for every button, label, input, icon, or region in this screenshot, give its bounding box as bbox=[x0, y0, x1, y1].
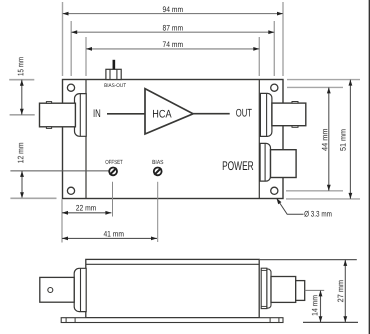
side view case bbox=[86, 259, 259, 317]
power connector body bbox=[271, 150, 297, 178]
svg-text:OUT: OUT bbox=[236, 107, 252, 119]
extension line IN connector centerline (15mm ref) bbox=[10, 114, 35, 116]
IN connector bottom tab bbox=[46, 127, 51, 129]
extension line box left edge (94mm) bbox=[62, 2, 64, 76]
screw hole top-right bbox=[271, 84, 278, 91]
svg-text:51 mm: 51 mm bbox=[339, 129, 348, 151]
OUT connector bottom tab bbox=[292, 126, 298, 128]
svg-text:74 mm: 74 mm bbox=[163, 40, 184, 49]
extension lines right side bbox=[287, 79, 360, 81]
dimension 51 mm bbox=[339, 80, 351, 199]
OUT connector nut bbox=[260, 93, 272, 136]
dimension 87 mm bbox=[71, 24, 274, 33]
screw hole top-left bbox=[67, 84, 74, 91]
svg-text:14 mm: 14 mm bbox=[310, 295, 319, 316]
svg-text:BIAS: BIAS bbox=[152, 159, 163, 166]
dimension 22 mm bbox=[62, 203, 111, 212]
extension line bottom-left (12mm ref) bbox=[10, 197, 56, 199]
svg-text:OFFSET: OFFSET bbox=[105, 159, 123, 166]
output wire bbox=[193, 113, 230, 115]
extension line left screw column (87mm) bbox=[70, 21, 72, 76]
potentiometer OFFSET bbox=[109, 168, 117, 176]
svg-text:12 mm: 12 mm bbox=[16, 142, 25, 163]
dimension 74 mm bbox=[86, 40, 259, 49]
svg-text:15 mm: 15 mm bbox=[16, 57, 25, 76]
dimension 14 mm bbox=[310, 290, 320, 322]
extension line left flange (74mm) bbox=[85, 37, 87, 76]
extension line top of box, left side (15mm ref) bbox=[9, 79, 34, 81]
svg-text:BIAS-OUT: BIAS-OUT bbox=[104, 83, 127, 89]
figure right border line bbox=[368, 0, 370, 334]
IN connector washer line bbox=[79, 94, 81, 137]
IN connector body bbox=[40, 103, 76, 127]
main case front view bbox=[63, 80, 284, 199]
extension line box right edge (94mm) bbox=[282, 2, 284, 76]
left flange line bbox=[85, 80, 87, 199]
svg-text:22 mm: 22 mm bbox=[76, 203, 97, 212]
screw hole bottom-right bbox=[271, 187, 278, 194]
IN connector nut bbox=[75, 94, 87, 137]
svg-text:POWER: POWER bbox=[222, 159, 254, 173]
BIAS-OUT connector body bbox=[106, 69, 121, 79]
side BNC washer line bbox=[80, 268, 82, 311]
dimension 94 mm bbox=[63, 5, 284, 14]
OUT connector washer line bbox=[266, 93, 268, 136]
extension line right flange (74mm) bbox=[258, 37, 260, 76]
side view lid seam bbox=[86, 263, 259, 265]
side BNC nut bbox=[74, 268, 86, 311]
side BNC bayonet stud bbox=[48, 288, 53, 293]
op-amp triangle HCA bbox=[145, 89, 193, 134]
extension verticals below box (22/41mm refs) bbox=[61, 199, 63, 242]
bottom reference line for 14/27mm dims bbox=[303, 321, 358, 323]
svg-text:44 mm: 44 mm bbox=[320, 128, 329, 151]
side BNC body bbox=[40, 277, 74, 302]
svg-text:27 mm: 27 mm bbox=[336, 280, 345, 303]
OUT connector top tab bbox=[292, 102, 298, 104]
svg-text:Ø 3.3 mm: Ø 3.3 mm bbox=[304, 209, 332, 218]
dimension 27 mm bbox=[336, 260, 345, 322]
svg-text:IN: IN bbox=[93, 108, 101, 120]
extension line power tip centerline (14mm) bbox=[305, 289, 325, 291]
leader line diameter 3.3 bbox=[277, 198, 333, 218]
dimension 12 mm bbox=[16, 142, 25, 198]
power connector nut bbox=[260, 143, 270, 181]
potentiometer BIAS bbox=[154, 168, 162, 176]
side power tip bbox=[296, 281, 305, 301]
pot centerline from left bbox=[10, 170, 109, 172]
screw hole bottom-left bbox=[67, 187, 74, 194]
input wire bbox=[107, 113, 145, 115]
OUT connector body bbox=[272, 103, 306, 126]
svg-text:41 mm: 41 mm bbox=[103, 230, 124, 239]
dimension 15 mm bbox=[16, 57, 25, 115]
right flange line bbox=[258, 80, 260, 199]
dimension 41 mm bbox=[62, 230, 157, 239]
side view base plate bbox=[61, 318, 283, 323]
dimension 44 mm bbox=[320, 87, 329, 190]
base plate tab marks bbox=[65, 318, 67, 323]
BIAS-OUT center pin bbox=[113, 60, 116, 70]
side power body bbox=[271, 277, 296, 303]
extension line lid top right (27mm) bbox=[260, 259, 357, 261]
svg-text:94 mm: 94 mm bbox=[163, 5, 184, 14]
svg-text:HCA: HCA bbox=[152, 108, 172, 120]
svg-text:87 mm: 87 mm bbox=[163, 24, 184, 33]
side power washer bbox=[261, 268, 267, 308]
extension line right screw column (87mm) bbox=[273, 21, 275, 76]
IN connector top tab bbox=[46, 102, 51, 104]
side power nut bbox=[267, 269, 271, 308]
power connector washer line bbox=[264, 143, 266, 181]
